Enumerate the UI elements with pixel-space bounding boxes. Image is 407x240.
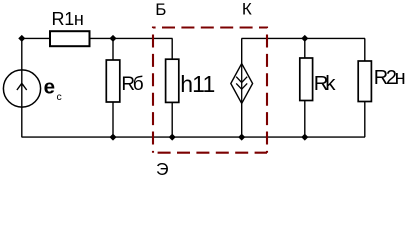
wire: top-right horizontal rail (collector to R2n) <box>242 37 366 39</box>
wire: right vertical through R2n <box>364 38 366 137</box>
dashed transistor boundary box: left edge <box>152 27 154 153</box>
label K (collector terminal) <box>242 0 252 18</box>
svg-text:К: К <box>242 0 252 18</box>
label R2n <box>374 67 405 89</box>
svg-text:R1н: R1н <box>52 9 84 29</box>
dependent current source: diamond with double down arrow <box>231 64 253 104</box>
label h11 <box>180 71 214 97</box>
svg-text:c: c <box>57 91 62 103</box>
wire: bottom horizontal rail <box>22 136 366 138</box>
svg-text:h11: h11 <box>180 71 214 97</box>
junction node: Rb top <box>109 35 116 42</box>
dashed transistor boundary box: right edge <box>266 27 268 153</box>
svg-text:Э: Э <box>156 159 169 179</box>
resistor R1n: horizontal box <box>50 31 90 46</box>
label E (emitter terminal) <box>156 159 169 179</box>
junction node: source top <box>18 35 25 42</box>
label B (base terminal) <box>155 0 166 19</box>
wire: dependent-source branch vertical <box>241 38 243 137</box>
junction node: Rk bottom <box>301 134 308 141</box>
label Rk <box>314 72 336 95</box>
label Rb <box>121 74 143 95</box>
svg-text:e: e <box>44 76 55 99</box>
wire: top-left horizontal rail (source to base) <box>22 37 173 39</box>
resistor h11: vertical box <box>166 59 179 102</box>
voltage source e_c: circle with upward arrow <box>3 70 40 107</box>
svg-text:R2н: R2н <box>374 67 405 89</box>
resistor Rb: vertical box <box>106 60 120 102</box>
wire: Rb branch vertical <box>112 38 114 137</box>
resistor Rk: vertical box <box>300 58 313 101</box>
wire: Rk branch vertical <box>304 38 306 137</box>
resistor R2n: vertical box <box>358 61 371 102</box>
svg-text:Б: Б <box>155 0 166 19</box>
dashed transistor boundary box: bottom edge <box>153 152 267 154</box>
svg-text:Rk: Rk <box>314 72 336 95</box>
junction node: h11 bottom <box>169 134 176 141</box>
wire: h11 branch vertical <box>171 38 173 137</box>
junction node: Rk top <box>301 35 308 42</box>
svg-text:Rб: Rб <box>121 74 143 95</box>
junction node: dependent source bottom <box>238 134 245 141</box>
label e_c <box>44 76 62 103</box>
junction node: Rb bottom <box>109 134 116 141</box>
label R1n <box>52 9 84 29</box>
wire: left vertical through source e_c <box>21 38 23 137</box>
dashed transistor boundary box (dark red): top edge <box>153 26 267 28</box>
